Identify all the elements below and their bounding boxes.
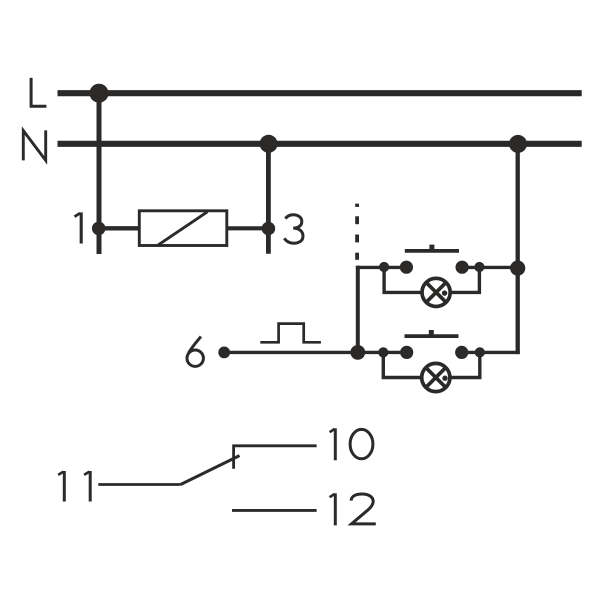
wire: right vertical from N down to lamp block [516,144,520,354]
contact 10 (NO) [234,446,317,469]
push button S2 actuator bar [405,334,459,338]
wire: common pole 11 [98,483,180,486]
wire: dashed continuation above button block [355,204,359,260]
node: terminal 6 dot [218,347,230,359]
lamp E2 (circle with cross) [422,363,450,391]
wire: upper branch right segment [462,266,519,269]
wire: left vertical of button block [356,266,360,353]
node: S1 left contact dot [400,261,413,274]
wire: N bus line [58,141,582,147]
node: S2 left contact dot [400,346,413,359]
wire: lower branch right segment [462,351,520,354]
node: S2 right contact dot [455,346,468,359]
node: small dot upper-right [474,262,484,272]
wire: vertical drop from N to terminal 3 [266,144,271,254]
pin label 6 [187,337,203,367]
node: junction dot right vertical / upper branch [510,261,525,276]
wire: terminal 1 to coil [99,226,140,230]
wire: lower branch left segment (from terminal 6) [224,351,407,354]
node: junction dot on L at x=99 [90,84,109,103]
wire: vertical drop from L to terminal 1 [97,93,102,254]
node: terminal 1 dot [92,222,106,236]
wire: upper lamp left drop [384,267,436,292]
pin label 3 [284,215,303,244]
wire: upper lamp right drop [436,267,479,292]
pin label 10 [330,428,373,460]
node: junction dot left vertical / lower branch [350,345,365,360]
node: junction dot on N at x=268 [260,135,278,153]
node: junction dot on N at x=518 [509,135,527,153]
node: terminal 3 dot [262,222,276,236]
wire: L bus line [58,90,582,96]
pulse symbol above wire 6 [260,324,321,343]
pin label 11 [58,471,90,502]
node: small dot lower-left [378,347,388,357]
wire: upper branch left segment [356,266,407,269]
label L (line conductor) [31,78,46,106]
wire: lower lamp right drop [436,352,480,377]
node: small dot upper-left [379,262,389,272]
wire: lower lamp left drop [383,352,436,377]
lamp E1 (circle with cross) [422,278,450,306]
push button S1 actuator bar [405,249,459,253]
pin label 1 [75,212,82,243]
wire: coil to terminal 3 [227,226,269,230]
label N (neutral conductor) [23,130,45,160]
changeover contact moving blade [181,456,240,485]
pin label 12 [330,493,376,525]
node: small dot lower-right [475,347,485,357]
relay coil A1 (rectangle with diagonal) [139,211,227,246]
contact 12 (NC) [232,509,317,512]
node: S1 right contact dot [456,261,469,274]
